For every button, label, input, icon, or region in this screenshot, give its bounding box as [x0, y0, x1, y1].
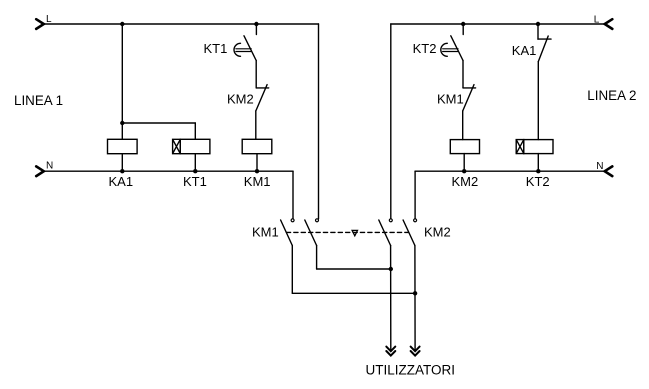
mechanical interlock triangle marker — [352, 230, 357, 235]
contact KM1 (NC) seat — [463, 87, 476, 89]
timer coil KT1 X-box — [173, 139, 181, 153]
svg-text:KT2: KT2 — [413, 41, 437, 56]
svg-text:UTILIZZATORI: UTILIZZATORI — [366, 363, 456, 378]
node: junction KA1 / N1 rail — [120, 169, 124, 173]
main contact KM1 pole 1 blade — [281, 220, 293, 246]
wire: L1 neutral rail — [44, 170, 293, 172]
wire: KA1 contact to KT2 coil — [537, 62, 539, 140]
contact KA1 (NC) blade — [538, 36, 548, 62]
node: junction L1 rail / KA1 branch — [120, 22, 124, 26]
svg-text:N: N — [46, 161, 53, 172]
node: junction L2 rail / KA1 contact branch — [536, 22, 540, 26]
node: junction KT1 / N1 rail — [193, 169, 197, 173]
node: junction KM1 coil / N1 rail — [255, 169, 259, 173]
svg-text:KT1: KT1 — [204, 41, 228, 56]
main contact KM2 pole 2 blade — [403, 220, 415, 246]
supply terminal arrow L1 neutral — [36, 166, 44, 176]
contact KT1 timer arc — [234, 43, 241, 56]
wire: KA1 coil branch from L1 rail — [121, 24, 123, 139]
node: junction KA1 branch / link to KT1 coil — [120, 121, 124, 125]
supply terminal arrow L2 neutral — [605, 166, 613, 176]
contact KM2 (NC) seat — [256, 87, 269, 89]
contact KT2 timer arc — [441, 43, 448, 56]
wire: KT2 coil to neutral rail — [537, 154, 539, 172]
contact KT1 (timed NO) blade — [244, 36, 256, 61]
svg-text:LINEA 2: LINEA 2 — [587, 88, 636, 103]
node: junction phase output — [389, 267, 393, 271]
svg-text:KM1: KM1 — [252, 225, 279, 240]
wire: KT1 coil to neutral rail — [194, 154, 196, 172]
mechanical interlock dashed link KM1-KM2 — [286, 231, 408, 233]
contact KA1 (NC) seat — [538, 38, 551, 40]
svg-text:KA1: KA1 — [109, 174, 134, 189]
svg-text:KM2: KM2 — [424, 225, 451, 240]
timer coil KT2 X-box — [516, 140, 524, 154]
wire: stub from L2 rail to KA1 contact — [537, 24, 539, 39]
wire: KM2 pole 1 output drop to load — [390, 246, 392, 350]
wire: stub from L2 rail to KT2 contact — [462, 24, 464, 35]
svg-text:KT1: KT1 — [183, 174, 207, 189]
supply terminal arrow L2 phase — [605, 19, 613, 29]
timer coil KT1 — [180, 139, 210, 153]
wire: stub from L1 rail to KT1 contact — [255, 24, 257, 35]
wire: KT2 contact to KM1 contact — [462, 61, 464, 88]
contact KM1 (NC) blade — [463, 85, 474, 111]
wire: L1 phase top rail — [44, 23, 319, 25]
main contact KM1 pole 2 blade — [305, 220, 317, 246]
contactor coil KM2 — [450, 140, 479, 154]
wire: L2 phase top rail — [391, 23, 605, 25]
wire: phase output link KM1 pole 2 to KM2 pole 1 — [317, 268, 391, 270]
relay coil KA1 — [108, 139, 138, 153]
wire: N1 rail right drop to KM1 main pole 1 — [292, 171, 294, 219]
node: junction L1 rail / KT1 contact branch — [254, 22, 258, 26]
wire: KM2 contact to KM1 coil — [255, 111, 257, 139]
wire: KM1 pole 1 output drop — [291, 246, 293, 294]
node: junction KT2 coil / N2 rail — [536, 169, 540, 173]
main contact KM2 pole 2 fixed terminal — [414, 219, 417, 222]
svg-text:L: L — [46, 14, 52, 25]
contactor coil KM1 — [242, 139, 272, 153]
contact KM2 (NC) blade — [256, 85, 267, 111]
node: junction KM2 coil / N2 rail — [462, 169, 466, 173]
wire: KM1 contact to KM2 coil — [462, 111, 464, 140]
main contact KM1 pole 1 fixed terminal — [291, 219, 294, 222]
wire: KM2 pole 2 output drop to load — [414, 246, 416, 350]
wire: KA1 coil to neutral rail — [121, 154, 123, 172]
svg-text:KA1: KA1 — [512, 43, 537, 58]
svg-text:KM1: KM1 — [437, 92, 464, 107]
wire: KM1 pole 2 output drop — [316, 246, 318, 270]
svg-text:KM1: KM1 — [244, 174, 271, 189]
wire: L2 rail left drop to KM2 main pole 1 — [390, 24, 392, 219]
contact KT2 (timed NO) blade — [451, 36, 463, 61]
main contact KM2 pole 1 blade — [379, 220, 391, 246]
wire: link KA1 branch to KT1 coil branch — [122, 122, 195, 124]
contact KT2 timer double lines — [443, 49, 459, 52]
supply terminal arrow L1 phase — [36, 19, 44, 29]
main contact KM2 pole 1 fixed terminal — [389, 219, 392, 222]
wire: neutral output link KM1 pole 1 to KM2 pole 2 — [292, 292, 415, 294]
svg-text:KM2: KM2 — [227, 92, 254, 107]
node: junction L2 rail / KT2 contact branch — [461, 22, 465, 26]
wire: KT1 coil branch drop — [194, 123, 196, 139]
load arrow neutral output — [411, 347, 420, 356]
svg-text:N: N — [596, 161, 603, 172]
main contact KM1 pole 2 fixed terminal — [316, 219, 319, 222]
svg-text:LINEA 1: LINEA 1 — [14, 93, 63, 108]
svg-text:KM2: KM2 — [452, 174, 479, 189]
wire: KT1 contact to KM2 contact — [255, 61, 257, 88]
wire: N2 rail left drop to KM2 main pole 2 — [414, 171, 416, 219]
timer coil KT2 — [524, 140, 553, 154]
wire: L2 neutral rail — [415, 170, 605, 172]
wire: KM1 coil to neutral rail — [256, 154, 258, 172]
svg-text:KT2: KT2 — [526, 174, 550, 189]
load arrow phase output — [386, 347, 395, 356]
wire: L1 rail right drop to KM1 main pole 2 — [318, 24, 320, 219]
wire: KM2 coil to neutral rail — [463, 154, 465, 172]
node: junction neutral output — [413, 291, 417, 295]
svg-text:L: L — [594, 15, 600, 26]
contact KT1 timer double lines — [236, 49, 252, 52]
